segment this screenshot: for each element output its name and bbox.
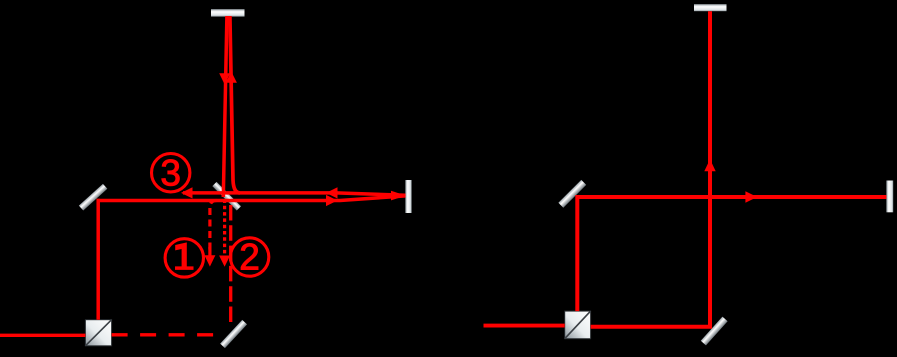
arrow down output beam 1 (204, 255, 215, 266)
wire: cube to left fold mirror (96, 199, 100, 320)
fold mirror M3 (left) (79, 184, 107, 211)
beamsplitter cube BC2 (right) (565, 311, 591, 339)
fold mirror M4 (bottom) (220, 320, 247, 348)
label circle 2 (230, 237, 268, 278)
svg-text:2: 2 (239, 237, 260, 278)
arrow left output 3 (181, 187, 193, 198)
mirror M1 top (left interferometer) (211, 9, 245, 16)
svg-text:3: 3 (160, 153, 181, 194)
arrow right at right mirror (left interferometer) (391, 191, 406, 201)
label circle 3 (152, 153, 190, 194)
wire: dashed input beam cube to bottom mirror (112, 333, 223, 336)
arrow right on horizontal beam (right interferometer) (745, 191, 757, 202)
mirror M6 right (right interferometer) (886, 181, 893, 213)
wire: input laser beam (left) (0, 334, 85, 337)
arrow up on vertical beam (226, 72, 237, 83)
arrow right on lower horizontal beam (326, 195, 338, 206)
mirror M5 top (right interferometer) (694, 4, 727, 11)
wire: dashed input beam bottom mirror to BS (229, 203, 232, 322)
wire: dotted output beam 2 (223, 200, 226, 257)
wire: vertical beam up from BS with bend (230, 16, 240, 193)
arrow down on slanted beam (219, 73, 230, 84)
fold mirror M8 (bottom-right, right interferometer) (701, 317, 728, 346)
wire: output 3 line / upper beam to right mirror (183, 193, 406, 195)
wire: slanted return beam from top mirror (223, 16, 227, 197)
wire: left fold mirror to right mirror (lower beam) (97, 196, 406, 201)
beamsplitter cube BC1 (left) (85, 320, 111, 346)
fold mirror M7 (top-left, right interferometer) (558, 180, 586, 208)
arrow left on upper horizontal beam (326, 187, 338, 198)
arrow up on vertical beam (right interferometer) (704, 159, 715, 171)
wire: cube up to fold mirror then right to mirror M6 (577, 197, 886, 311)
wire: dashed output beam 1 (210, 201, 217, 252)
wire: cube right to bottom fold mirror then up to top mirror M5 (591, 11, 710, 327)
arrow down output beam 2 (219, 256, 230, 267)
mirror M2 right (left interferometer) (405, 180, 411, 213)
wire: input laser beam (right) (484, 324, 565, 328)
beamsplitter plate BS1 (left interferometer) (212, 182, 241, 211)
label circle 1 (165, 239, 203, 277)
